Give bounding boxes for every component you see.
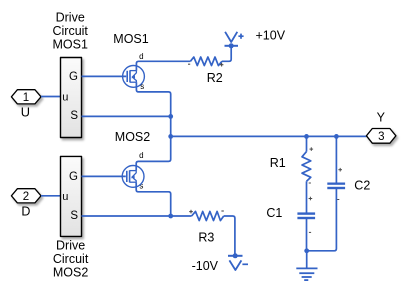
wire block2 G to MOS2 gate — [82, 175, 126, 177]
wire node to R1 — [306, 136, 308, 151]
svg-text:1: 1 — [23, 92, 29, 104]
svg-text:C2: C2 — [354, 179, 370, 193]
wire MOS2 source down to S rail — [136, 182, 171, 216]
input port 1 — [11, 90, 41, 104]
polarity marks R1 — [309, 147, 313, 183]
power supply V- — [228, 253, 248, 270]
svg-text:C1: C1 — [266, 206, 282, 220]
wire port1 to block1 u — [41, 96, 61, 98]
node R1 branch — [304, 134, 309, 139]
wire block1 S to node — [82, 115, 171, 117]
svg-text:Drive: Drive — [56, 238, 85, 252]
resistor R1 — [302, 152, 311, 182]
svg-text:R3: R3 — [198, 231, 214, 245]
svg-text:MOS1: MOS1 — [113, 32, 148, 46]
svg-text:d: d — [139, 151, 143, 160]
wire MOS1 drain to R2 — [136, 61, 190, 70]
svg-text:R1: R1 — [270, 156, 286, 170]
svg-text:MOS1: MOS1 — [52, 38, 87, 52]
svg-text:Circuit: Circuit — [52, 24, 88, 38]
wire block1 G to MOS1 gate — [82, 75, 127, 77]
svg-text:u: u — [62, 191, 68, 203]
svg-text:Circuit: Circuit — [53, 252, 89, 266]
svg-text:2: 2 — [23, 191, 29, 203]
svg-text:U: U — [21, 104, 30, 119]
svg-text:MOS2: MOS2 — [115, 130, 150, 144]
svg-text:S: S — [70, 110, 78, 122]
polarity marks C1 — [309, 197, 313, 233]
transistor MOS2 — [122, 166, 144, 188]
transistor MOS1 — [123, 66, 145, 88]
polarity marks C2 — [337, 168, 342, 200]
power supply V+ — [225, 32, 244, 49]
wire node down to MOS2 drain — [136, 116, 171, 170]
drive circuit block U1 (Drive Circuit MOS1) — [61, 58, 82, 138]
capacitor C1 — [297, 212, 315, 219]
wire C2 to ground rail — [307, 189, 337, 251]
svg-text:R2: R2 — [207, 71, 223, 85]
svg-text:MOS2: MOS2 — [53, 265, 88, 279]
svg-text:G: G — [69, 171, 78, 183]
wire R3 to V- — [224, 216, 235, 256]
wire MOS1 source down to output node — [136, 82, 170, 116]
svg-text:G: G — [69, 71, 78, 83]
svg-text:3: 3 — [378, 131, 384, 143]
label Drive Circuit MOS2 — [53, 238, 89, 279]
wire R1 to C1 — [306, 181, 308, 212]
wire output node to port 3 — [171, 135, 367, 137]
node ground junction — [304, 248, 309, 253]
wire C2 branch — [335, 136, 337, 182]
svg-text:Drive: Drive — [56, 10, 85, 24]
node C2 branch — [334, 134, 339, 139]
wire block2 S to R3 — [82, 215, 192, 217]
svg-text:+10V: +10V — [256, 28, 286, 42]
capacitor C2 — [327, 183, 345, 190]
svg-text:-10V: -10V — [192, 259, 219, 273]
input port 2 — [11, 189, 41, 203]
svg-text:D: D — [21, 205, 30, 219]
ground — [296, 251, 317, 280]
resistor R2 — [190, 57, 222, 66]
polarity marks R2 — [188, 63, 223, 67]
svg-text:s: s — [140, 82, 144, 91]
output port 3 — [366, 129, 396, 144]
drive circuit block U2 (Drive Circuit MOS2) — [61, 156, 82, 236]
node MOS2 source / block2 S — [168, 214, 173, 219]
resistor R3 — [192, 211, 224, 220]
wire R2 to V+ — [222, 46, 231, 62]
node block1 S / MOS1 source — [168, 114, 173, 119]
wire C1 to ground node — [306, 219, 308, 251]
label Drive Circuit MOS1 — [52, 10, 88, 51]
svg-text:d: d — [139, 52, 143, 61]
svg-text:u: u — [62, 92, 68, 104]
wire port2 to block2 u — [41, 195, 61, 197]
node output branch — [168, 134, 173, 139]
svg-text:Y: Y — [377, 111, 386, 125]
svg-text:S: S — [70, 210, 78, 222]
polarity marks R3 — [189, 210, 224, 214]
